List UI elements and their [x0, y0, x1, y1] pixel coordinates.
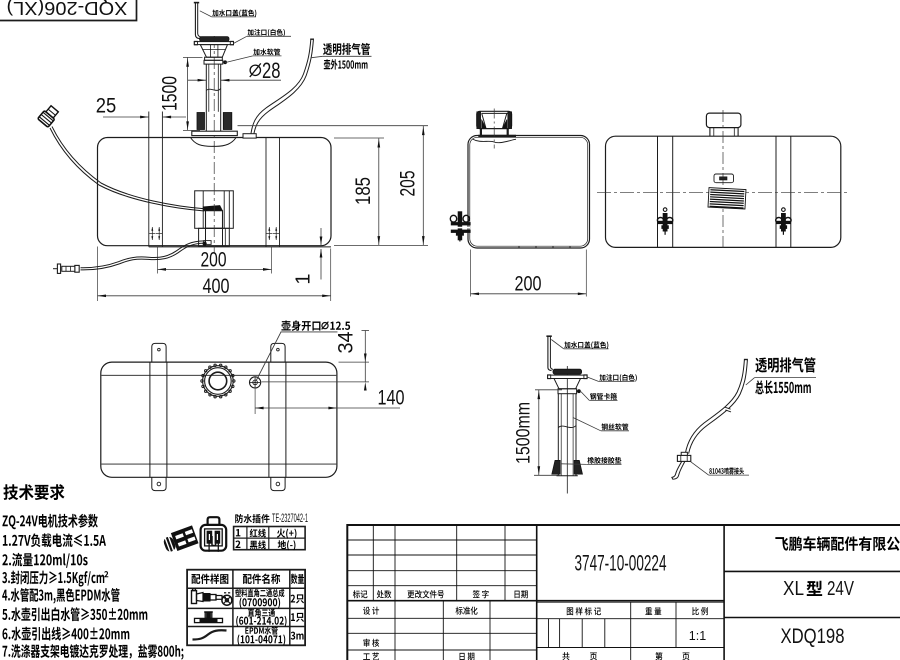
- view2 cap centerline: [493, 109, 495, 149]
- leader + label 壶身开口Ø12.5: [256, 332, 281, 381]
- view1 right strap: [265, 138, 267, 247]
- label 防水插件 TE-2327042-1: [235, 514, 269, 523]
- dim 185 (tank height): [334, 137, 384, 139]
- view4 left strap over tank: [149, 362, 151, 477]
- view3 tank outline: [606, 136, 841, 247]
- view1 knurled lock nut (left block): [197, 113, 205, 130]
- view5 rubber gasket right (dark): [574, 460, 582, 474]
- connector socket front icon: [201, 517, 227, 552]
- part number box XQD-206(XL) (rotated 180): [0, 0, 137, 21]
- tech line 6 wire length: [3, 627, 130, 641]
- view3 cap neck: [709, 128, 711, 137]
- view3 horizontal centerline: [597, 191, 849, 193]
- signature area grid: [347, 617, 536, 619]
- label 加注口(白色) view1: [248, 29, 285, 37]
- svg-text:200: 200: [201, 248, 227, 271]
- view4 face edge lines: [102, 374, 337, 376]
- svg-text:185: 185: [352, 177, 375, 205]
- view4 tank outline (top view): [101, 362, 337, 477]
- svg-text:1: 1: [293, 273, 315, 284]
- svg-text:28: 28: [262, 58, 281, 83]
- view1 funnel collar: [205, 57, 223, 60]
- dim Ø28 arrows to tube: [188, 79, 206, 81]
- view4 right strap bottom tab with hole: [271, 477, 285, 490]
- svg-text:XQD-206(XL): XQD-206(XL): [6, 0, 127, 18]
- view1 filler funnel: [200, 45, 227, 58]
- connector plug isometric icon: [161, 525, 198, 554]
- parts row2 name: [248, 609, 275, 617]
- parts row3 name: [245, 626, 277, 634]
- title block revision area grid: [347, 539, 536, 541]
- view1 hose clamp ring: [204, 60, 223, 64]
- view4 right strap over tank: [268, 362, 270, 477]
- view6 fitting tail hose: [672, 462, 682, 478]
- svg-text:200: 200: [515, 273, 542, 296]
- leader vent label view6: [746, 378, 755, 385]
- dim 200 (strap spacing view1): [158, 268, 272, 270]
- view1 washer pump housing: [195, 191, 234, 229]
- label 加水口盖(蓝色) view1: [212, 9, 256, 17]
- parts table header: [191, 574, 228, 584]
- svg-text:25: 25: [96, 95, 117, 118]
- view4 right strap top tab with hole: [271, 343, 285, 362]
- view4 left strap bottom tab with hole: [152, 477, 166, 490]
- label 橡胶接胶垫 view5: [561, 463, 587, 466]
- tech line 3 pressure: [2, 571, 104, 587]
- view1 transparent vent pipe (S-curve to tank top): [251, 40, 311, 134]
- view1 tank neck flange: [192, 131, 238, 135]
- label 加水口盖(蓝色) view5: [551, 340, 563, 349]
- view1 left strap: [148, 112, 150, 247]
- view1 pump inner body: [206, 211, 223, 229]
- view1 tube break line: [206, 89, 220, 91]
- view3 wing bolt on left strap: [657, 208, 672, 235]
- view5 funnel: [554, 379, 581, 389]
- view1 knurled lock nut (right block): [223, 113, 232, 130]
- leader line cap label view1: [200, 11, 212, 17]
- leader line hose label view1: [225, 56, 253, 63]
- view4 left strap top tab with hole: [152, 343, 166, 362]
- parts row3 hose drawing: [193, 630, 227, 639]
- view4 serrated filler opening: [203, 366, 234, 397]
- label 钢丝软管 view5: [573, 418, 601, 431]
- tech line 2 flow: [2, 553, 87, 568]
- parts row2 tee drawing: [195, 612, 223, 623]
- parts table frame: [187, 570, 305, 646]
- stamp sub-cells: [548, 619, 550, 648]
- view1 electrical connector (top-left plug): [38, 104, 60, 127]
- view2 neck flange on tank: [478, 135, 516, 138]
- svg-text:205: 205: [396, 171, 419, 197]
- view5 flange plate: [548, 375, 588, 378]
- label 81043 connector view6: [691, 462, 709, 475]
- svg-text:1500: 1500: [159, 76, 182, 111]
- svg-text:3747-10-00224: 3747-10-00224: [575, 551, 667, 576]
- view2 bottom tick marks: [518, 246, 520, 248]
- view5 open cap lid: [548, 337, 552, 371]
- dim 1500 vertical (view1): [183, 56, 203, 58]
- view5 tube break mark: [558, 426, 576, 428]
- view5 center axis line: [566, 366, 568, 494]
- view1 filler hose tube: [205, 64, 207, 131]
- view1 vent pipe fitting on tank top: [243, 134, 256, 138]
- svg-text:XDQ198: XDQ198: [781, 624, 845, 648]
- parts row1 nozzle drawing: [192, 589, 227, 604]
- view3 right strap: [775, 136, 777, 247]
- tech line 7 bracket plating: [2, 644, 183, 660]
- view3 filler cap top: [706, 113, 741, 128]
- dim Ø28 symbol and text: [250, 65, 260, 75]
- signature labels: [363, 607, 379, 615]
- view6 vent pipe S-curve (double line): [685, 360, 744, 454]
- view4 vent hole Ø12.5: [250, 377, 261, 388]
- view5 clamp ring: [558, 389, 577, 394]
- view3 product label (hatched): [708, 188, 746, 209]
- view5 cap rubber seal (dark): [553, 369, 582, 374]
- dim 205 (overall height): [238, 125, 429, 127]
- svg-text:1:1: 1:1: [689, 629, 706, 643]
- view3 wing bolt on right strap: [776, 208, 791, 235]
- view3 small nameplate: [714, 174, 734, 183]
- dim 34 (hole offset from edge): [339, 361, 370, 363]
- view1 mounting baseline under tank: [149, 246, 331, 248]
- tech line ZQ-24V motor params: [2, 514, 97, 530]
- company name 飞鹏车辆配件有限公司: [775, 536, 900, 551]
- svg-text:140: 140: [378, 387, 405, 410]
- view1 strap mounting cross marks right: [266, 233, 272, 235]
- view3 vertical centerline: [722, 110, 724, 251]
- svg-text:XL: XL: [783, 577, 804, 600]
- view5 rubber gasket left (dark): [552, 460, 560, 474]
- dim 140 (hole to tank end): [254, 387, 256, 415]
- view5 hose tube: [557, 394, 559, 476]
- view1 strap center extension lines for 200 dim: [157, 247, 159, 274]
- label 加注口(白色) view5: [587, 377, 599, 382]
- dim 25 (strap width): [103, 116, 149, 118]
- view1 outlet water hose to spray fitting: [81, 241, 205, 268]
- leader line vent pipe label view1: [311, 56, 323, 58]
- view1 filler cap rubber seal (dark): [200, 37, 229, 42]
- label 透明排气管 / 壶外1500mm view1: [323, 43, 370, 55]
- dim 1 (base plate offset): [320, 228, 322, 245]
- view1 filler cap lid (open, standing up): [195, 3, 199, 39]
- dim 1500mm (view5): [535, 389, 562, 391]
- tech line 1 load current: [3, 533, 106, 547]
- view2 tank outline (side view): [468, 136, 590, 249]
- tech line 5 white hose length: [2, 607, 147, 621]
- parts row1 name: [235, 589, 284, 597]
- view6 pipe splice mark: [725, 409, 731, 411]
- view1 tank body outline: [98, 138, 332, 246]
- view1 pump electrical terminal (dark wedge): [203, 206, 222, 211]
- view5 tube bottom end: [557, 475, 578, 477]
- leader line filler port label view1: [234, 36, 247, 43]
- revision row labels: [353, 590, 368, 598]
- sheet count row 共 页 第 页: [562, 652, 569, 660]
- svg-text:24V: 24V: [827, 577, 854, 600]
- title block outer frame: [347, 525, 900, 660]
- svg-text:1500mm: 1500mm: [513, 402, 535, 464]
- view1 pump lower housing: [199, 228, 230, 246]
- view1 pump outlet elbow fitting: [204, 241, 211, 245]
- view1 strap mounting cross marks left: [149, 233, 155, 235]
- view2 clamp wing bolt: [450, 212, 470, 242]
- stamp row 图样标记 重量 比例: [537, 601, 724, 603]
- wire color table: [234, 527, 306, 550]
- dim 200 (view2 width): [470, 250, 472, 297]
- svg-text:TE-2327042-1: TE-2327042-1: [272, 513, 308, 525]
- view2 cap neck: [480, 129, 482, 136]
- view1 filler neck flange plate: [194, 42, 233, 45]
- svg-text:400: 400: [203, 275, 230, 298]
- view2 filler cap: [477, 111, 512, 128]
- view1 spray nozzle fitting at hose end: [75, 265, 79, 272]
- label 透明排气管 / 总长1550mm view6: [755, 357, 815, 373]
- company column: [723, 525, 725, 660]
- view3 left strap: [657, 136, 659, 247]
- view6 end fitting: [681, 452, 687, 455]
- tech line 4 hose: [2, 588, 119, 604]
- view1 wire harness from connector to pump: [52, 127, 205, 209]
- view1 splash plate under flange: [190, 137, 236, 146]
- label 钢管卡箍 view5: [581, 392, 589, 401]
- heading 技术要求: [3, 484, 64, 500]
- view2 water level wavy line: [473, 139, 517, 143]
- dim 400 (tank length): [97, 247, 99, 302]
- svg-text:34: 34: [334, 331, 358, 353]
- view1 vertical centerline through filler: [213, 36, 215, 253]
- label 加水软管 view1: [253, 48, 280, 55]
